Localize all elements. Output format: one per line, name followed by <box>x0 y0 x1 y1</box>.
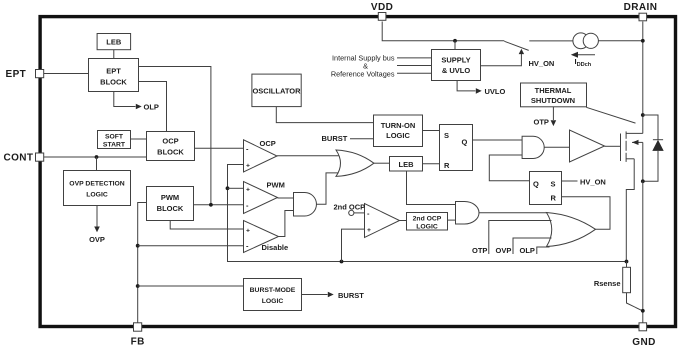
node EPT line joins PWM minus <box>209 203 213 207</box>
svg-text:OTP: OTP <box>472 246 487 255</box>
wire MOSFET source down to sense node <box>626 159 634 262</box>
node drain and diode <box>641 113 645 117</box>
wire 2nd OCP output to logic <box>400 220 407 222</box>
wire Disable output to AND1 <box>279 211 294 237</box>
wire OR2 output to FF2 R <box>562 197 611 230</box>
wire PWM BLOCK bottom to Disable plus <box>170 221 243 230</box>
arrow UVLO output <box>457 81 505 96</box>
wire HV_ON control with up arrow <box>481 54 522 66</box>
arrow OLP <box>136 104 142 110</box>
wire current source to drain rail <box>598 40 642 42</box>
wire PWM output to AND1 <box>278 197 294 199</box>
block OVP DETECTION LOGIC <box>64 171 131 206</box>
svg-text:THERMAL: THERMAL <box>535 86 572 95</box>
svg-text:2nd OCP: 2nd OCP <box>413 216 442 223</box>
arrow IDDch <box>571 52 595 68</box>
wire sense branch to PWM plus <box>228 187 244 189</box>
switch HV_ON blade <box>504 41 528 50</box>
wire AND1 output up to OR1 <box>317 173 341 204</box>
svg-text:S: S <box>551 180 556 189</box>
node sense junction <box>625 260 629 264</box>
wire FF2 S to HV_ON label <box>562 180 578 182</box>
label Internal Supply bus <box>331 54 395 79</box>
node sense to 2nd OCP <box>340 260 344 264</box>
comparator OCP <box>244 139 278 172</box>
gate AND1 <box>294 193 317 217</box>
svg-text:OCP: OCP <box>162 137 178 146</box>
wire OSCILLATOR to TURN-ON LOGIC <box>276 107 373 123</box>
block LEB (top) <box>97 34 131 50</box>
svg-text:SUPPLY: SUPPLY <box>441 56 470 65</box>
svg-text:LOGIC: LOGIC <box>416 224 438 231</box>
block SUPPLY & UVLO <box>432 50 481 81</box>
wire FB rail to BURST-MODE LOGIC <box>138 285 244 287</box>
wire OCP BLOCK output to OCP comparator minus <box>195 147 244 149</box>
svg-text:OVP: OVP <box>89 235 105 244</box>
svg-text:R: R <box>444 161 450 170</box>
svg-text:PWM: PWM <box>161 193 179 202</box>
svg-text:Q: Q <box>462 138 468 147</box>
wire 2nd OCP LOGIC to AND3 <box>448 219 456 221</box>
svg-text:BLOCK: BLOCK <box>157 148 184 157</box>
svg-text:EPT: EPT <box>106 67 121 76</box>
wire SOFT START to OCP BLOCK <box>131 138 147 140</box>
comparator PWM <box>244 181 285 214</box>
diode body diode <box>643 115 664 181</box>
svg-text:IDDch: IDDch <box>575 57 592 68</box>
svg-text:SOFT: SOFT <box>105 134 124 141</box>
svg-text:OVP DETECTION: OVP DETECTION <box>69 181 124 188</box>
svg-text:+: + <box>246 187 250 194</box>
svg-text:START: START <box>103 142 126 149</box>
svg-text:Q: Q <box>533 180 539 189</box>
wire VDD pin to switch <box>382 22 504 41</box>
svg-text:2nd OCP: 2nd OCP <box>334 203 366 212</box>
svg-text:CONT: CONT <box>4 153 34 164</box>
wire FF1 Q to AND2 <box>473 139 523 141</box>
comparator 2nd OCP <box>334 203 400 238</box>
svg-text:OTP: OTP <box>534 118 549 127</box>
block TURN-ON LOGIC <box>374 115 423 147</box>
node sense to PWM plus <box>226 186 230 190</box>
buffer driver <box>570 130 605 162</box>
wire thermal shutdown diagonal <box>586 107 635 123</box>
wire TURN-ON LOGIC to FF1 S <box>423 130 440 132</box>
wire EPT pin to EPT BLOCK <box>44 73 89 75</box>
svg-text:SHUTDOWN: SHUTDOWN <box>531 96 575 105</box>
wire sense line to OCP plus and down to Rsense rail <box>228 165 627 262</box>
flip-flop FF1 S/Q/R <box>440 125 473 171</box>
wire MOSFET body down to diode node <box>642 142 644 181</box>
arrow OVP output <box>89 206 105 245</box>
node Rsense joins GND rail <box>641 309 645 313</box>
pin CONT <box>4 153 44 164</box>
gate AND3 <box>456 202 480 225</box>
svg-text:& UVLO: & UVLO <box>442 66 471 75</box>
svg-text:S: S <box>444 131 449 140</box>
wire EPT BLOCK upper output to PWM minus column <box>139 67 211 205</box>
wire DRAIN pin down to MOSFET drain <box>642 22 644 134</box>
wire sense node to resistor <box>626 262 628 268</box>
svg-text:OVP: OVP <box>496 246 512 255</box>
node VDD to supply <box>453 39 457 43</box>
wire CONT pin to OCP BLOCK <box>44 156 147 158</box>
svg-text:R: R <box>551 193 557 202</box>
svg-text:OLP: OLP <box>144 103 159 112</box>
wire 2nd OCP plus from sense rail <box>342 229 365 261</box>
wire BURST to TURN-ON LOGIC <box>350 138 374 140</box>
node FB rail to Disable minus <box>136 244 140 248</box>
svg-text:BLOCK: BLOCK <box>157 204 184 213</box>
block 2nd OCP LOGIC <box>407 213 448 231</box>
node CONT branch <box>95 155 99 159</box>
svg-text:EPT: EPT <box>6 69 27 80</box>
wire OVP to OR2 <box>513 238 552 254</box>
wire AND2 to buffer <box>544 146 569 148</box>
svg-text:LOGIC: LOGIC <box>386 131 410 140</box>
svg-text:OLP: OLP <box>520 246 535 255</box>
wire LEB2 bottom down to AND3 <box>407 171 456 205</box>
svg-text:BURST: BURST <box>322 134 348 143</box>
block OCP BLOCK <box>147 132 195 161</box>
wire node to SUPPLY & UVLO top <box>454 41 456 50</box>
svg-text:VDD: VDD <box>371 2 393 13</box>
gate OR2 <box>547 213 596 247</box>
pin FB <box>131 323 145 348</box>
svg-text:LOGIC: LOGIC <box>262 298 284 305</box>
wire PWM BLOCK output to PWM comparator minus <box>194 204 244 206</box>
wire switch to current source <box>529 40 573 42</box>
wire OLP to OR2 <box>537 247 550 254</box>
wire LEB2 to FF1 R <box>423 163 440 165</box>
wire FF2 Q feedback to AND2 <box>489 155 529 181</box>
node FB rail to BURST-MODE LOGIC <box>136 284 140 288</box>
svg-text:OSCILLATOR: OSCILLATOR <box>252 87 301 96</box>
svg-text:GND: GND <box>632 337 655 348</box>
block BURST-MODE LOGIC <box>244 279 302 311</box>
flip-flop FF2 Q/S/R <box>530 172 562 205</box>
svg-text:BURST: BURST <box>338 291 364 300</box>
wire OR1 to LEB2 <box>374 162 390 164</box>
comparator Disable <box>244 221 289 253</box>
svg-text:PWM: PWM <box>267 181 285 190</box>
block SOFT START <box>98 131 131 149</box>
wire source rail down to GND <box>642 181 644 322</box>
svg-text:+: + <box>367 227 371 234</box>
wire OTP to OR2 <box>489 221 552 255</box>
wire EPT BLOCK lower output to OCP BLOCK top <box>139 82 167 132</box>
block EPT BLOCK <box>89 59 139 92</box>
svg-text:+: + <box>246 228 250 235</box>
block PWM BLOCK <box>147 187 194 221</box>
resistor Rsense <box>594 267 631 292</box>
wires supply bus inputs <box>397 57 432 59</box>
svg-text:LEB: LEB <box>399 160 415 169</box>
pin DRAIN <box>624 2 658 21</box>
svg-text:DRAIN: DRAIN <box>624 2 658 13</box>
svg-text:HV_ON: HV_ON <box>529 59 555 68</box>
svg-text:UVLO: UVLO <box>485 87 506 96</box>
wire OCP output to OR1 <box>277 155 341 157</box>
wire buffer to MOSFET gate <box>605 145 621 147</box>
svg-text:BURST-MODE: BURST-MODE <box>250 287 296 294</box>
wire PWM BLOCK left to FB rail <box>138 203 147 323</box>
svg-text:BLOCK: BLOCK <box>100 78 127 87</box>
arrow BURST output <box>302 291 365 300</box>
svg-text:Rsense: Rsense <box>594 279 621 288</box>
wire EPT BLOCK bottom to OLP arrow <box>114 92 136 107</box>
svg-text:Disable: Disable <box>262 243 289 252</box>
node drain and current source <box>641 39 645 43</box>
node diode to source rail <box>641 179 645 183</box>
transistor power MOSFET <box>621 131 643 162</box>
svg-text:Reference Voltages: Reference Voltages <box>331 69 395 78</box>
svg-text:TURN-ON: TURN-ON <box>381 121 416 130</box>
gate OR1 <box>336 150 374 176</box>
svg-text:OCP: OCP <box>260 139 276 148</box>
wire FB rail to Disable minus <box>138 245 244 247</box>
svg-text:+: + <box>246 163 250 170</box>
svg-text:HV_ON: HV_ON <box>580 178 606 187</box>
wire CONT branch down to OVP DETECTION LOGIC <box>96 157 98 171</box>
current source IDDch <box>573 33 599 49</box>
block OSCILLATOR <box>252 74 301 107</box>
svg-text:LOGIC: LOGIC <box>86 192 108 199</box>
block THERMAL SHUTDOWN <box>521 83 587 107</box>
arrow OTP down <box>534 107 557 127</box>
pin VDD <box>371 2 393 20</box>
pin EPT <box>6 69 44 80</box>
pin GND <box>632 323 655 348</box>
svg-text:LEB: LEB <box>106 38 122 47</box>
svg-text:FB: FB <box>131 337 145 348</box>
wire Rsense bottom diagonal to GND rail <box>627 293 643 311</box>
wire LEB to EPT BLOCK <box>113 50 115 59</box>
block LEB2 <box>390 157 423 172</box>
wire AND3 output to OR2 <box>479 212 547 214</box>
gate AND2 gate-drive <box>522 136 544 158</box>
